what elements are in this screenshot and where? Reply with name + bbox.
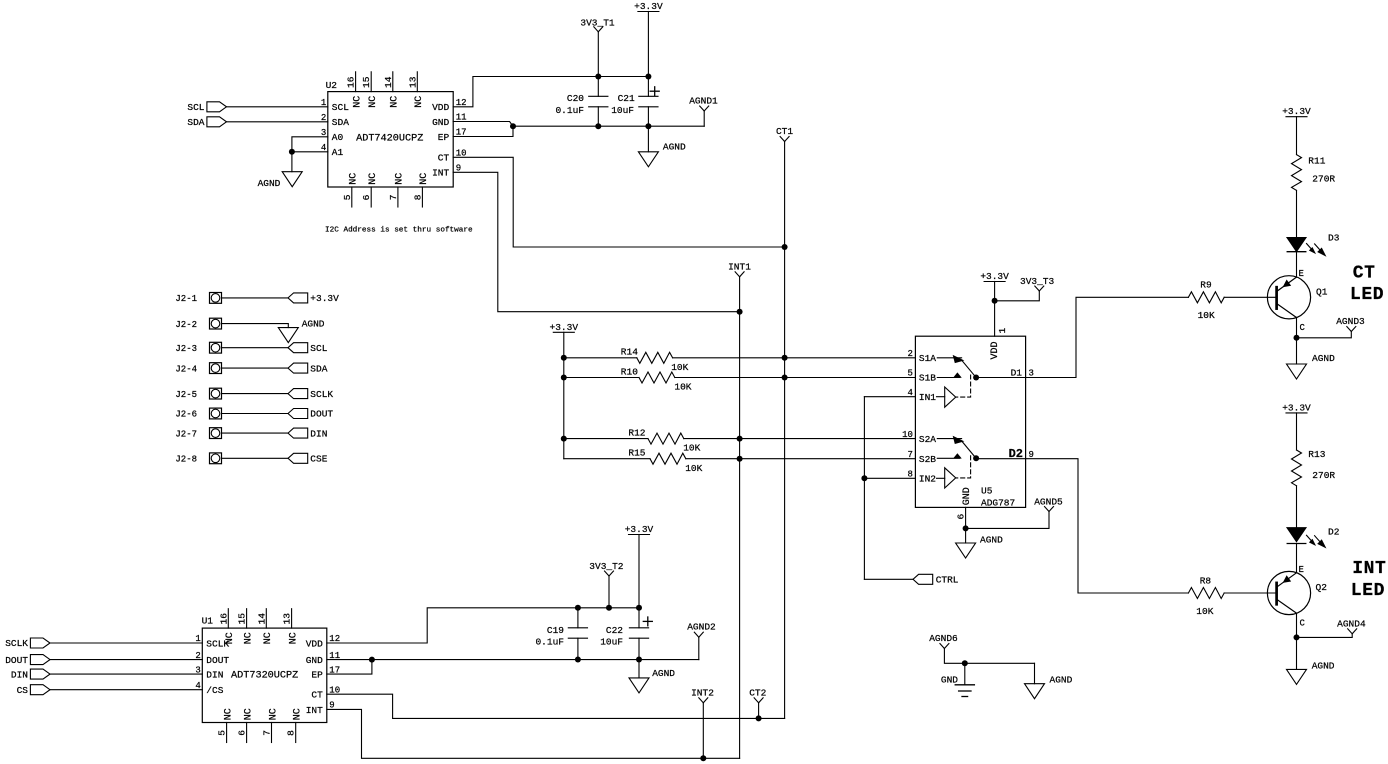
- junction GND rail at C21: [645, 123, 651, 129]
- svg-text:INT: INT: [1352, 559, 1386, 579]
- power flag 3V3_T2: [589, 561, 624, 576]
- svg-text:+3.3V: +3.3V: [625, 524, 654, 535]
- net flag DIN: [288, 428, 327, 439]
- wire AGND3: [1297, 332, 1352, 338]
- net flag AGND6: [929, 633, 958, 649]
- wire SDA to U2 pin 2: [227, 121, 328, 123]
- svg-text:J2-2: J2-2: [175, 320, 197, 330]
- svg-text:GND: GND: [306, 655, 323, 666]
- svg-text:INT: INT: [432, 168, 449, 179]
- resistor R15 10K: [628, 448, 702, 474]
- junction U5 GND: [963, 525, 969, 531]
- svg-text:270R: 270R: [1312, 173, 1335, 184]
- wire +3.3V stem (U1): [638, 535, 640, 608]
- wire R14 row to U5 S1A: [564, 357, 637, 359]
- svg-text:13: 13: [407, 76, 418, 88]
- svg-text:10K: 10K: [674, 382, 691, 393]
- svg-text:C19: C19: [547, 625, 564, 636]
- junction CT wire at CT1: [782, 244, 788, 250]
- svg-text:3V3_T3: 3V3_T3: [1020, 276, 1055, 287]
- svg-text:EP: EP: [438, 132, 450, 143]
- svg-text:SCL: SCL: [332, 102, 349, 113]
- svg-text:NC: NC: [288, 632, 299, 644]
- svg-text:270R: 270R: [1312, 470, 1335, 481]
- transistor Q1 (PNP): [1267, 269, 1327, 333]
- svg-text:VDD: VDD: [432, 102, 449, 113]
- svg-text:+3.3V: +3.3V: [550, 322, 579, 333]
- svg-text:E: E: [1299, 269, 1304, 279]
- power flag 3V3_T3: [1020, 276, 1055, 291]
- svg-text:NC: NC: [419, 173, 430, 185]
- capacitor C21 10uF (polarized): [611, 77, 659, 127]
- wire U2 A1: [292, 151, 328, 153]
- svg-text:DIN: DIN: [310, 428, 327, 439]
- svg-text:R14: R14: [621, 347, 638, 358]
- svg-text:AGND: AGND: [652, 668, 675, 679]
- ground AGND at J2-2: [278, 319, 325, 343]
- svg-text:VDD: VDD: [306, 638, 323, 649]
- junction GND/EP: [510, 123, 516, 129]
- junction VDD rail at C21: [645, 74, 651, 80]
- ground AGND below Q1: [1287, 338, 1336, 379]
- svg-text:GND: GND: [432, 117, 449, 128]
- wire U1 GND pin 11 rail: [327, 659, 699, 661]
- svg-text:AGND6: AGND6: [929, 633, 958, 644]
- svg-text:J2-3: J2-3: [175, 344, 197, 354]
- svg-text:I2C Address is set thru softwa: I2C Address is set thru software: [325, 226, 473, 234]
- wire J2-8: [222, 457, 289, 459]
- wire 3V3_T3 to VDD: [995, 291, 1040, 301]
- svg-text:CS: CS: [17, 685, 29, 696]
- svg-text:+3.3V: +3.3V: [634, 1, 663, 12]
- wire +3.3V to R11: [1296, 117, 1298, 155]
- connector pad J2-2: [175, 318, 221, 330]
- wire Q2 collector: [1296, 613, 1298, 637]
- svg-text:LED: LED: [1351, 581, 1385, 601]
- power +3.3V (U1): [629, 534, 650, 536]
- svg-text:16: 16: [218, 613, 229, 625]
- wire U2 VDD pin 12 to rail: [453, 77, 648, 107]
- svg-text:A1: A1: [332, 147, 344, 158]
- svg-text:10: 10: [902, 430, 913, 440]
- svg-text:C20: C20: [567, 93, 584, 104]
- wire Q1 collector: [1296, 318, 1298, 338]
- svg-text:GND: GND: [962, 487, 973, 505]
- wire J2-1: [222, 297, 289, 299]
- svg-text:7: 7: [388, 195, 399, 201]
- junction Q2 collector / AGND4: [1294, 634, 1300, 640]
- svg-text:J2-1: J2-1: [175, 294, 197, 304]
- svg-text:AGND5: AGND5: [1034, 496, 1063, 507]
- svg-text:R13: R13: [1308, 449, 1325, 460]
- svg-text:AGND: AGND: [258, 178, 281, 189]
- junction INT1 at S2A row: [737, 436, 743, 442]
- svg-text:10K: 10K: [1198, 310, 1215, 321]
- net flag SCL (input to U2): [187, 102, 226, 113]
- svg-text:10K: 10K: [671, 362, 688, 373]
- wire D2 to Q2 emitter: [1296, 544, 1298, 573]
- wire U2 CT pin 10 to CT1: [453, 157, 784, 247]
- resistor R14 10K: [621, 347, 689, 373]
- svg-text:NC: NC: [368, 173, 379, 185]
- svg-text:10uF: 10uF: [611, 105, 634, 116]
- wire INT1 vertical: [739, 277, 741, 759]
- svg-text:SDA: SDA: [187, 117, 204, 128]
- wire CT1 vertical: [784, 142, 786, 719]
- wire +3.3V to U5 VDD: [994, 282, 996, 337]
- svg-text:7: 7: [262, 730, 273, 736]
- capacitor C22 10uF (polarized): [600, 608, 652, 660]
- wire CTRL: [864, 578, 913, 580]
- svg-text:DIN: DIN: [206, 670, 223, 681]
- net flag AGND2: [687, 622, 716, 660]
- svg-text:6: 6: [956, 514, 967, 520]
- svg-text:/CS: /CS: [206, 685, 223, 696]
- buffer IN2 wire: [864, 477, 915, 479]
- junction Q1 collector / AGND3: [1294, 335, 1300, 341]
- svg-text:S2B: S2B: [919, 454, 936, 465]
- svg-text:AGND: AGND: [1312, 353, 1335, 364]
- wire J2-2 to ground: [222, 324, 289, 328]
- svg-text:R15: R15: [628, 448, 645, 459]
- LED D3: [1287, 232, 1340, 255]
- wire DIN to U1: [50, 673, 202, 675]
- net flag SCLK (input to U1): [5, 638, 50, 649]
- svg-text:13: 13: [282, 613, 293, 625]
- svg-text:SCLK: SCLK: [5, 638, 28, 649]
- net flag SDA (input to U2): [187, 117, 226, 128]
- svg-text:0.1uF: 0.1uF: [535, 637, 564, 648]
- power +3.3V (top): [638, 11, 659, 13]
- junction VDD rail at C20: [595, 74, 601, 80]
- connector pad J2-1: [175, 293, 221, 305]
- connector pad J2-4: [175, 363, 221, 375]
- svg-text:NC: NC: [223, 708, 234, 720]
- svg-text:SCLK: SCLK: [310, 389, 333, 400]
- net flag DOUT: [288, 409, 333, 420]
- wire U2 INT pin 9 to INT1: [453, 172, 739, 311]
- junction GND rail at C22: [636, 657, 642, 663]
- wire U5 GND pin 6: [965, 507, 967, 528]
- svg-text:J2-8: J2-8: [175, 455, 197, 465]
- wire +3.3V stem (top): [647, 12, 649, 77]
- wire CS to U1: [50, 689, 202, 691]
- svg-text:NC: NC: [352, 96, 363, 108]
- svg-text:CT: CT: [311, 690, 323, 701]
- svg-text:U1: U1: [202, 616, 214, 627]
- svg-text:10K: 10K: [1196, 606, 1213, 617]
- svg-text:J2-6: J2-6: [175, 410, 197, 420]
- svg-text:J2-7: J2-7: [175, 429, 197, 439]
- junction CT1 at S1A row: [782, 355, 788, 361]
- junction U5 VDD: [992, 298, 998, 304]
- wire U5 D2 pin 9 to R8: [976, 459, 1188, 593]
- svg-text:AGND1: AGND1: [689, 95, 718, 106]
- svg-text:DOUT: DOUT: [206, 655, 229, 666]
- svg-text:5: 5: [907, 369, 912, 379]
- svg-text:E: E: [1299, 565, 1304, 575]
- wire U2 A0 to A1 tie: [292, 137, 328, 172]
- IC U5 ADG787: [902, 328, 1026, 520]
- wire R15 row to U5 S2B: [564, 458, 650, 460]
- wire 3V3_T1 stem: [597, 32, 599, 77]
- svg-text:NC: NC: [414, 96, 425, 108]
- wire R9 to Q1 base: [1224, 296, 1275, 298]
- connector pad J2-5: [175, 388, 221, 400]
- resistor R10 10K: [621, 366, 692, 392]
- svg-text:IN2: IN2: [919, 474, 936, 485]
- svg-text:NC: NC: [293, 708, 304, 720]
- wire J2-4: [222, 367, 289, 369]
- svg-text:SCL: SCL: [187, 102, 204, 113]
- svg-text:CT1: CT1: [776, 126, 793, 137]
- svg-text:CSE: CSE: [310, 454, 327, 465]
- svg-text:AGND: AGND: [1050, 674, 1073, 685]
- power +3.3V (R11): [1286, 116, 1307, 118]
- connector pad J2-6: [175, 408, 221, 420]
- svg-text:NC: NC: [395, 173, 406, 185]
- junction rail at R12: [561, 436, 567, 442]
- ground AGND below C21: [638, 126, 686, 167]
- svg-text:U5: U5: [981, 486, 993, 497]
- svg-text:8: 8: [412, 194, 423, 200]
- net flag DIN (input to U1): [11, 669, 50, 680]
- net flag AGND1: [689, 95, 718, 126]
- svg-text:C22: C22: [606, 625, 623, 636]
- svg-text:R12: R12: [628, 427, 645, 438]
- wire R12 row to U5 S2A: [564, 438, 648, 440]
- svg-text:14: 14: [383, 76, 394, 88]
- svg-text:0.1uF: 0.1uF: [555, 105, 584, 116]
- wire DOUT to U1: [50, 659, 202, 661]
- resistor R9 10K: [1188, 280, 1224, 322]
- wire D3 to Q1 emitter: [1296, 252, 1298, 277]
- svg-text:15: 15: [237, 613, 248, 625]
- svg-text:ADT7320UCPZ: ADT7320UCPZ: [231, 670, 298, 681]
- svg-text:NC: NC: [243, 632, 254, 644]
- power +3.3V (pullups): [553, 331, 574, 333]
- svg-text:ADT7420UCPZ: ADT7420UCPZ: [356, 133, 423, 144]
- net flag SCL: [288, 343, 328, 354]
- connector pad J2-7: [175, 428, 221, 440]
- svg-text:Q2: Q2: [1316, 582, 1328, 593]
- svg-text:D2: D2: [1328, 527, 1340, 538]
- svg-text:10uF: 10uF: [600, 637, 623, 648]
- svg-text:INT2: INT2: [691, 687, 714, 698]
- svg-text:GND: GND: [941, 674, 958, 685]
- svg-text:R11: R11: [1308, 156, 1325, 167]
- junction INT1 at S2B row: [737, 456, 743, 462]
- wire INT2 stem: [702, 703, 704, 759]
- svg-text:C21: C21: [618, 93, 635, 104]
- svg-text:8: 8: [286, 730, 297, 736]
- net flag INT2: [691, 687, 714, 702]
- wire AGND6 to earth: [944, 649, 1034, 664]
- svg-text:5: 5: [217, 730, 228, 736]
- net flag INT1: [728, 261, 751, 277]
- svg-text:AGND: AGND: [663, 141, 686, 152]
- svg-text:6: 6: [361, 194, 372, 200]
- wire R11 to D3: [1296, 190, 1298, 237]
- wire J2-5: [222, 393, 289, 395]
- net flag SDA: [288, 363, 328, 374]
- wire R13 to D2: [1296, 486, 1298, 528]
- power +3.3V (U5): [984, 281, 1005, 283]
- svg-text:LED: LED: [1350, 285, 1384, 305]
- svg-text:DOUT: DOUT: [5, 655, 28, 666]
- junction VDD rail at C22: [636, 605, 642, 611]
- svg-text:1: 1: [997, 328, 1008, 334]
- junction rail at R14: [561, 355, 567, 361]
- IC U1 ADT7320UCPZ: [195, 609, 340, 743]
- wire U1 VDD pin 12 to rail: [327, 608, 639, 643]
- svg-text:VDD: VDD: [990, 341, 1001, 359]
- junction GND/EP (U1): [369, 657, 375, 663]
- svg-text:5: 5: [342, 194, 353, 200]
- svg-text:6: 6: [237, 730, 248, 736]
- svg-text:R9: R9: [1200, 280, 1212, 291]
- IC U2 ADT7420UCPZ: [321, 72, 467, 207]
- junction CT row at CT2: [756, 715, 762, 721]
- junction INT wire at INT1: [737, 309, 743, 315]
- wire U2 GND pin 11 rail: [453, 122, 704, 127]
- capacitor C19 0.1uF: [535, 608, 587, 660]
- net flag CT2: [749, 687, 766, 702]
- power flag 3V3_T1: [580, 18, 615, 32]
- net flag AGND5: [1034, 496, 1063, 511]
- svg-text:A0: A0: [332, 132, 344, 143]
- switch 1 inside U5 (S1A/S1B to D1): [937, 356, 979, 407]
- svg-text:SDA: SDA: [310, 363, 327, 374]
- net flag SCLK: [288, 389, 333, 400]
- svg-text:+3.3V: +3.3V: [980, 271, 1009, 282]
- ground AGND (earth tie): [1025, 663, 1073, 698]
- transistor Q2 (PNP): [1267, 565, 1327, 629]
- wire U1 INT pin 9 to INT row: [327, 709, 740, 758]
- wire U2 EP pin 17: [453, 126, 513, 136]
- svg-text:CT: CT: [1353, 263, 1376, 283]
- svg-text:J2-5: J2-5: [175, 390, 197, 400]
- svg-text:NC: NC: [368, 96, 379, 108]
- svg-text:AGND: AGND: [1312, 660, 1335, 671]
- svg-text:NC: NC: [349, 173, 360, 185]
- junction GND rail at C20: [595, 123, 601, 129]
- junction A0/A1: [289, 149, 295, 155]
- svg-text:INT1: INT1: [728, 261, 751, 272]
- wire IN1 to CTRL: [863, 397, 865, 580]
- svg-text:DIN: DIN: [11, 669, 28, 680]
- wire 3V3_T2 stem: [608, 576, 610, 608]
- svg-text:7: 7: [907, 450, 912, 460]
- LED D2: [1287, 527, 1340, 548]
- svg-text:3V3_T1: 3V3_T1: [580, 18, 615, 29]
- wire SCLK to U1: [50, 642, 202, 644]
- junction CT1 at S1B row: [782, 375, 788, 381]
- junction earth ground: [962, 660, 968, 666]
- wire R10 row to U5 S1B: [564, 377, 639, 379]
- resistor R13 270R: [1292, 449, 1336, 486]
- wire U1 EP pin 17: [327, 660, 372, 675]
- svg-text:R10: R10: [621, 366, 638, 377]
- junction IN2 / control net: [861, 475, 867, 481]
- buffer IN1 wire: [864, 396, 915, 398]
- svg-text:AGND: AGND: [302, 319, 325, 330]
- svg-text:14: 14: [256, 613, 267, 625]
- net flag AGND4: [1337, 618, 1366, 633]
- svg-text:U2: U2: [326, 80, 338, 91]
- svg-text:2: 2: [907, 349, 912, 359]
- svg-text:R8: R8: [1200, 575, 1212, 586]
- wire J2-6: [222, 413, 289, 415]
- svg-text:AGND3: AGND3: [1336, 316, 1365, 327]
- svg-text:3V3_T2: 3V3_T2: [589, 561, 624, 572]
- wire U5 D1 pin 3 to R9: [976, 297, 1188, 377]
- resistor R12 10K: [628, 427, 700, 453]
- net flag CT1: [776, 126, 793, 141]
- switch 2 inside U5 (S2A/S2B to D2): [937, 437, 979, 488]
- wire R8 to Q2 base: [1224, 592, 1275, 594]
- svg-text:10K: 10K: [685, 463, 702, 474]
- net flag CTRL: [913, 574, 959, 585]
- svg-text:J2-4: J2-4: [175, 364, 197, 374]
- wire AGND4: [1297, 634, 1353, 638]
- svg-text:Q1: Q1: [1316, 286, 1328, 297]
- svg-text:S1B: S1B: [919, 373, 936, 384]
- wire +3.3V pullup rail vertical: [563, 332, 565, 458]
- junction VDD rail at 3V3_T2: [606, 605, 612, 611]
- resistor R8 10K: [1188, 575, 1224, 617]
- svg-text:D3: D3: [1328, 232, 1340, 243]
- svg-text:CT2: CT2: [749, 687, 766, 698]
- junction GND rail at C19: [575, 657, 581, 663]
- net flag DOUT (input to U1): [5, 655, 50, 666]
- ground AGND below C22: [629, 660, 675, 693]
- resistor R11 270R: [1292, 155, 1336, 191]
- svg-text:INT: INT: [306, 705, 323, 716]
- ground AGND at U2 A0/A1: [258, 172, 303, 190]
- svg-text:+3.3V: +3.3V: [310, 293, 339, 304]
- net flag CS (input to U1): [17, 685, 50, 696]
- power +3.3V (R13): [1286, 412, 1307, 414]
- ground GND earth symbol: [941, 663, 975, 696]
- svg-text:NC: NC: [263, 632, 274, 644]
- junction INT row at INT2: [700, 755, 706, 761]
- junction VDD rail at C19: [575, 605, 581, 611]
- svg-text:16: 16: [346, 76, 357, 88]
- svg-text:NC: NC: [390, 96, 401, 108]
- capacitor C20 0.1uF: [555, 77, 607, 127]
- ground AGND below Q2: [1287, 637, 1335, 684]
- svg-text:IN1: IN1: [919, 392, 936, 403]
- wire CT2 stem: [758, 703, 760, 719]
- svg-text:EP: EP: [311, 670, 323, 681]
- wire J2-3: [222, 347, 289, 349]
- svg-text:NC: NC: [243, 708, 254, 720]
- svg-text:SCL: SCL: [310, 343, 327, 354]
- svg-text:DOUT: DOUT: [310, 409, 333, 420]
- connector pad J2-8: [175, 453, 221, 465]
- svg-text:AGND4: AGND4: [1337, 618, 1366, 629]
- svg-text:10K: 10K: [683, 443, 700, 454]
- svg-text:S1A: S1A: [919, 353, 936, 364]
- wire AGND5: [966, 512, 1049, 529]
- ground AGND below U5: [956, 528, 1004, 558]
- wire SCL to U2 pin 1: [227, 106, 328, 108]
- svg-text:+3.3V: +3.3V: [1282, 106, 1311, 117]
- net flag CSE: [288, 453, 328, 464]
- connector pad J2-3: [175, 342, 221, 354]
- svg-text:NC: NC: [268, 708, 279, 720]
